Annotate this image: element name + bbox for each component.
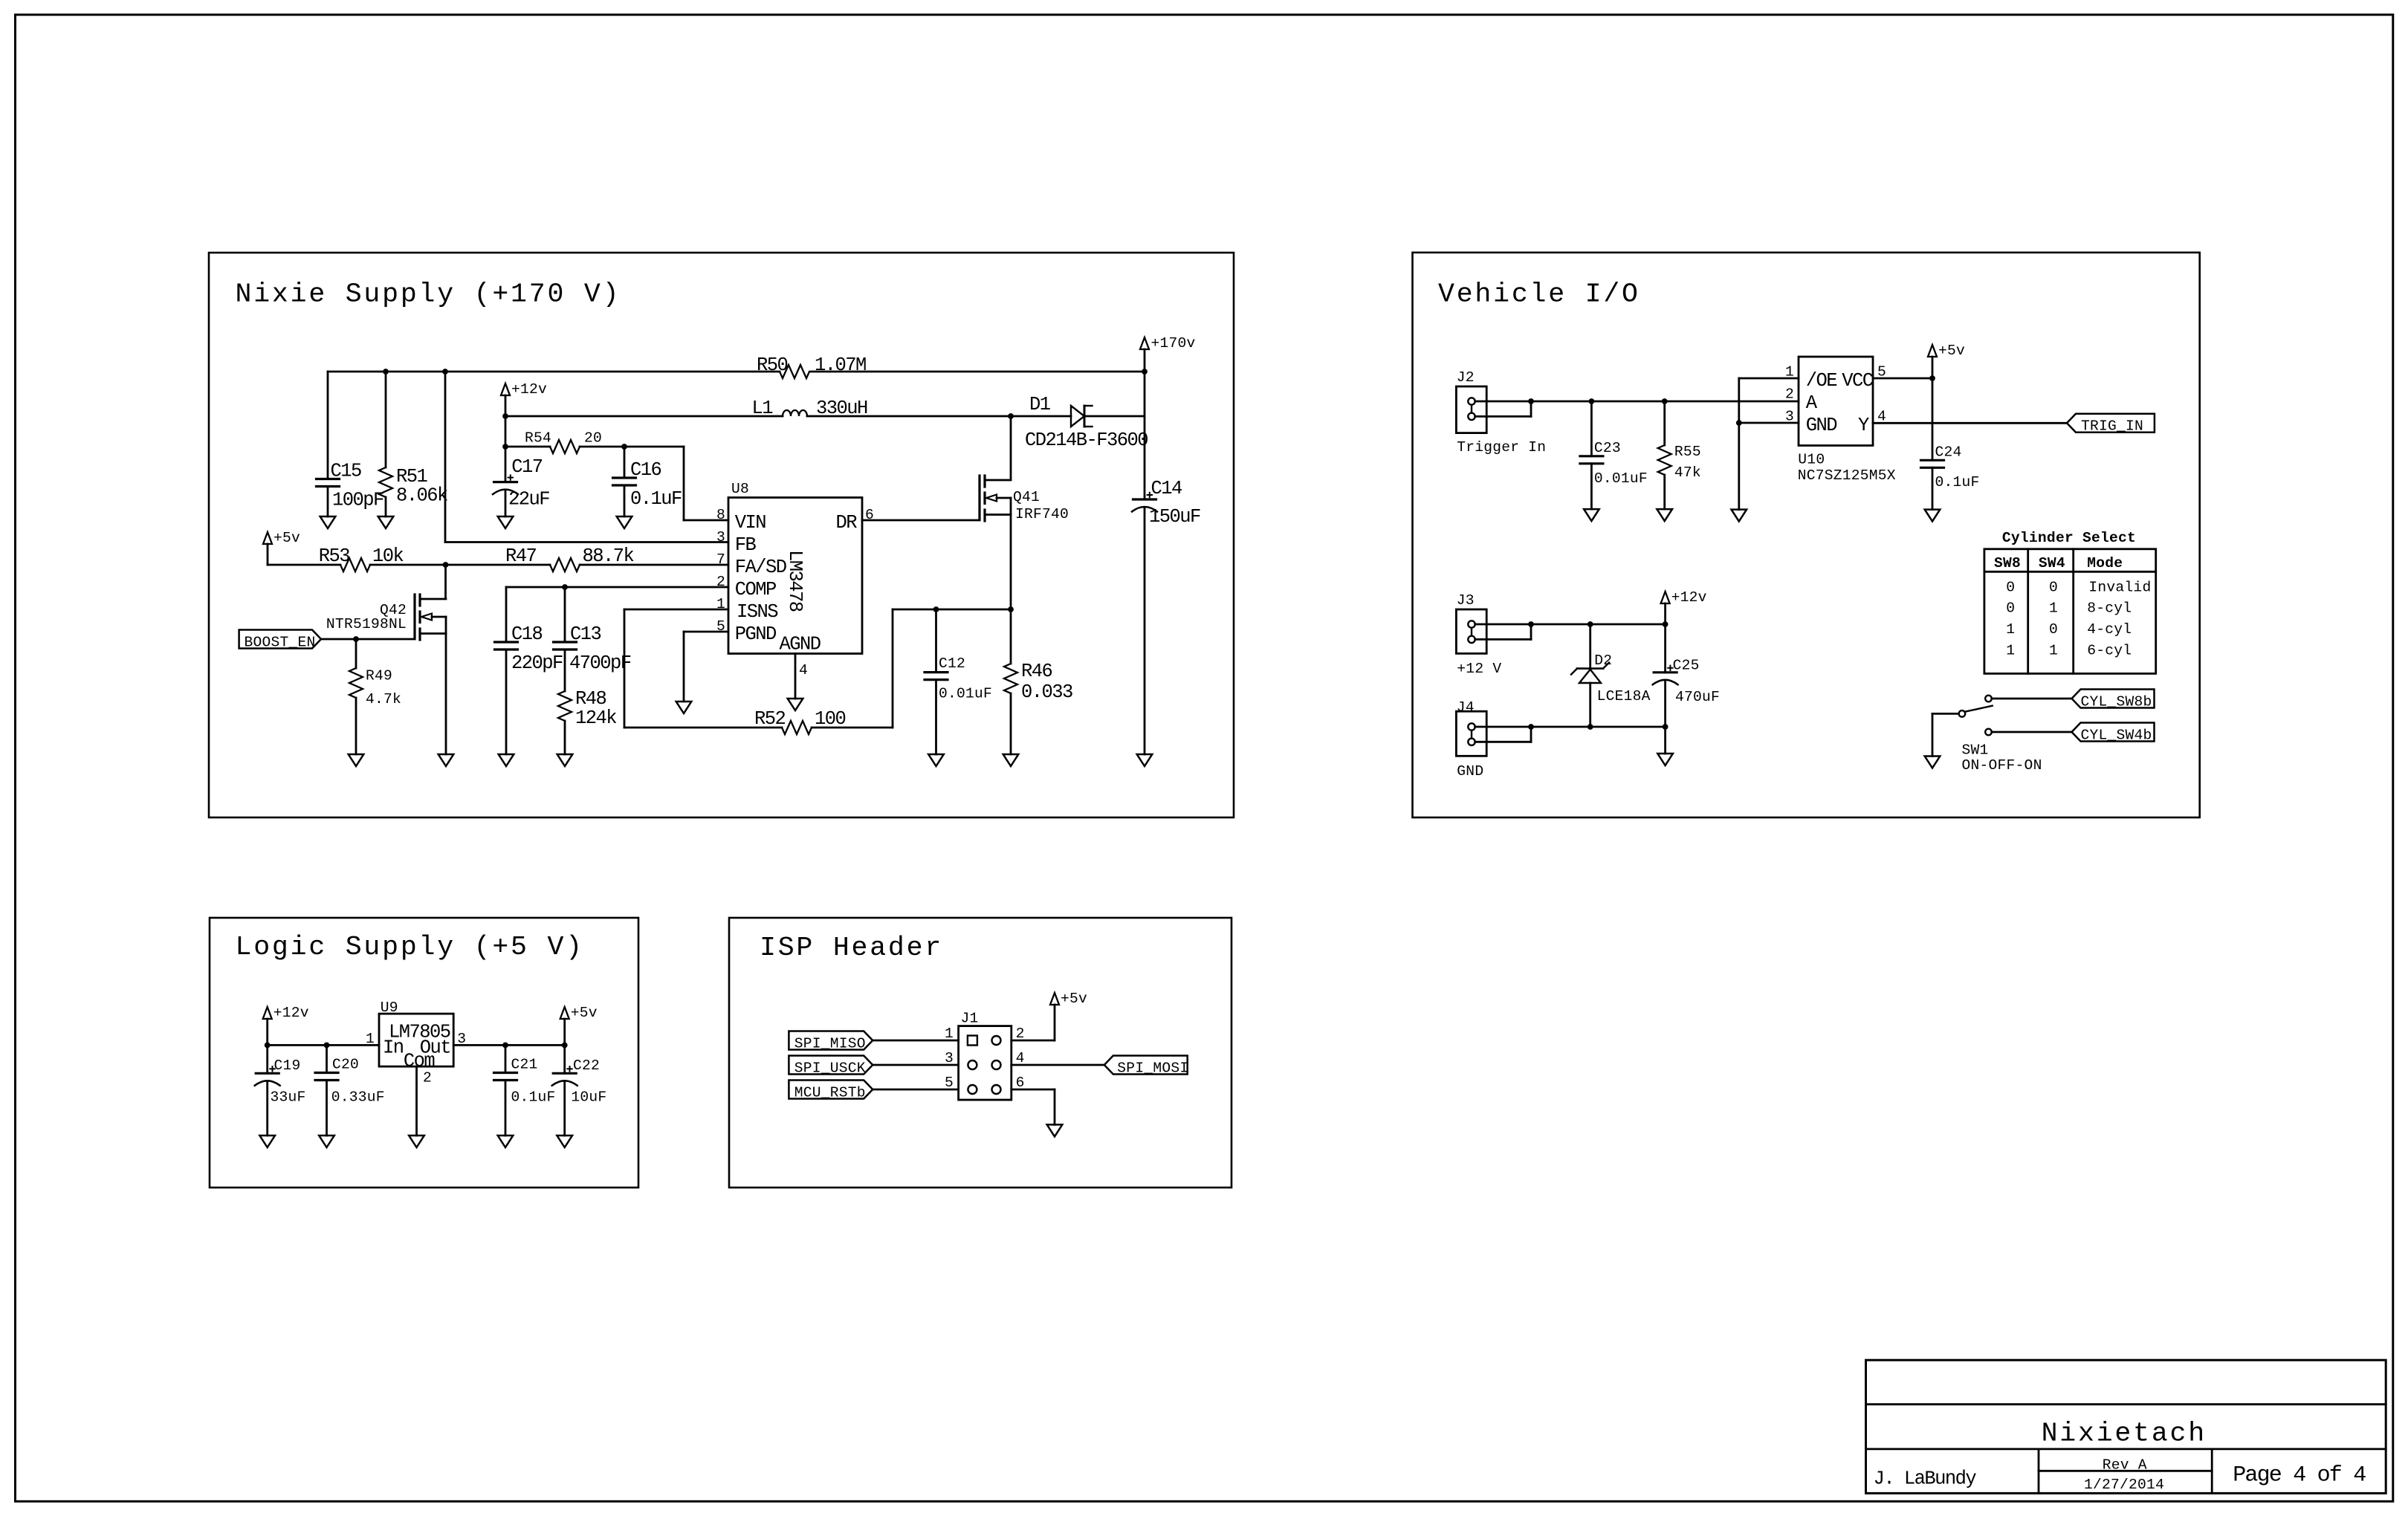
power +5v (ISP) (1050, 991, 1087, 1007)
svg-text:C15: C15 (331, 461, 362, 482)
node junction FB riser tap (442, 369, 448, 375)
capacitor C17 (polarized) (493, 475, 518, 516)
inductor L1 (505, 410, 1011, 416)
wire FA/SD net (268, 564, 728, 566)
svg-text:VIN: VIN (735, 512, 766, 534)
svg-text:R48: R48 (575, 688, 606, 710)
svg-text:NTR5198NL: NTR5198NL (326, 616, 407, 632)
svg-text:VCC: VCC (1842, 370, 1874, 392)
svg-text:8-cyl: 8-cyl (2087, 600, 2132, 617)
pin name FB (735, 534, 757, 556)
svg-text:6-cyl: 6-cyl (2087, 642, 2132, 658)
svg-text:U8: U8 (731, 481, 749, 497)
svg-text:SPI_MOSI: SPI_MOSI (1117, 1060, 1188, 1076)
svg-text:100pF: 100pF (332, 490, 383, 511)
diode D1 (1011, 406, 1145, 427)
wire ISNS net (624, 609, 1011, 728)
label R49 (366, 668, 401, 708)
svg-text:D1: D1 (1029, 394, 1051, 415)
svg-text:D2: D2 (1594, 652, 1612, 669)
pin number 7 (716, 551, 725, 568)
wire pin2 to +5v (1012, 1005, 1055, 1040)
svg-text:1: 1 (2006, 642, 2015, 658)
pin number 3 (716, 529, 725, 545)
label C16 (630, 459, 682, 510)
svg-text:SW1: SW1 (1962, 742, 1989, 759)
svg-text:+5v: +5v (274, 530, 300, 546)
wire throw2 net (1992, 731, 2072, 733)
wire COMP net (506, 587, 728, 642)
pin name FA/SD (735, 557, 786, 578)
wire pin6 to gnd (1012, 1089, 1055, 1124)
svg-text:A: A (1806, 392, 1818, 414)
svg-text:NC7SZ125M5X: NC7SZ125M5X (1798, 467, 1896, 484)
title date 1/27/2014 (2084, 1477, 2164, 1493)
table heading Cylinder Select (2002, 530, 2136, 546)
title block frame (1866, 1360, 2386, 1493)
pin name ISNS (737, 601, 778, 623)
wire PGND net (684, 632, 728, 702)
label C17 (508, 456, 549, 511)
svg-text:3: 3 (457, 1031, 466, 1047)
pin number 6 (865, 507, 874, 523)
svg-text:0.01uF: 0.01uF (1594, 470, 1648, 487)
label C20 (331, 1057, 385, 1106)
pin name VCC (1842, 370, 1874, 392)
power +5v (U10) (1928, 343, 1965, 359)
capacitor C16 (613, 447, 636, 516)
svg-text:J. LaBundy: J. LaBundy (1874, 1468, 1977, 1489)
svg-text:C17: C17 (511, 456, 543, 478)
svg-text:Nixie Supply (+170 V): Nixie Supply (+170 V) (236, 279, 621, 310)
svg-text:+5v: +5v (571, 1005, 598, 1021)
label C18 (511, 623, 563, 674)
svg-text:4.7k: 4.7k (366, 691, 401, 707)
pin number 2 (U10) (1785, 386, 1794, 403)
ground C22 (557, 1136, 572, 1147)
wire +5v stem to C24 (1932, 357, 1934, 460)
capacitor C14 (polarized) (1132, 493, 1157, 754)
table row3 (2006, 621, 2132, 638)
op-amp U9 (LM7805 regulator) (379, 1014, 453, 1066)
label R51 (396, 466, 447, 507)
svg-text:ISNS: ISNS (737, 601, 778, 623)
svg-text:GND: GND (1806, 415, 1837, 436)
label R53 (319, 545, 404, 567)
svg-text:1: 1 (716, 596, 725, 612)
svg-text:C24: C24 (1935, 444, 1962, 460)
ground Q42 source (438, 754, 454, 766)
svg-text:C21: C21 (511, 1057, 538, 1073)
svg-text:C12: C12 (939, 655, 965, 672)
label J3 (1457, 592, 1475, 609)
svg-text:1/27/2014: 1/27/2014 (2084, 1477, 2164, 1493)
pin number 2 (U9) (423, 1070, 432, 1086)
svg-text:C23: C23 (1594, 440, 1621, 456)
capacitor C18 (495, 642, 518, 754)
capacitor C19 (polarized) (255, 1045, 280, 1136)
node junction R49 tap (353, 636, 359, 642)
svg-text:SPI_USCK: SPI_USCK (794, 1060, 866, 1076)
diode D2 (zener LCE18A) (1571, 624, 1609, 727)
wire J4 pin2 link (1475, 727, 1531, 742)
svg-text:Cylinder Select: Cylinder Select (2002, 530, 2136, 546)
svg-text:470uF: 470uF (1675, 689, 1720, 705)
svg-text:0: 0 (2049, 621, 2058, 638)
svg-text:PGND: PGND (735, 623, 776, 645)
switch SW1 throw1 (1985, 696, 1992, 702)
resistor R53 (340, 558, 370, 571)
pin number 2 (J1) (1016, 1026, 1025, 1042)
svg-text:7: 7 (716, 551, 725, 568)
resistor R51 (379, 372, 392, 516)
svg-text:0: 0 (2006, 600, 2015, 617)
section box: Nixie Supply (209, 253, 1234, 817)
wire RSTb (873, 1089, 958, 1091)
label C15 (331, 461, 384, 511)
svg-text:124k: 124k (575, 707, 616, 729)
svg-text:J2: J2 (1457, 369, 1475, 386)
label R54 (525, 430, 602, 447)
capacitor C15 (317, 372, 340, 516)
wire /OE tie (1739, 378, 1799, 423)
capacitor C23 (1580, 401, 1603, 509)
pin number 3 (U10) (1785, 409, 1794, 425)
switch SW1 pole (1959, 706, 1993, 717)
label Q41 (1013, 489, 1069, 522)
svg-text:150uF: 150uF (1149, 506, 1200, 528)
svg-text:10k: 10k (372, 545, 404, 567)
svg-text:33uF: 33uF (271, 1089, 306, 1106)
node junction Q42 drain tap (443, 562, 449, 568)
pin name Y (1858, 415, 1869, 436)
label LM7805 (389, 1022, 450, 1043)
svg-text:TRIG_IN: TRIG_IN (2081, 418, 2143, 435)
wire MISO (873, 1040, 958, 1042)
label J1 (961, 1010, 979, 1026)
pad 5 circle (968, 1085, 977, 1094)
label R46 (1021, 661, 1072, 703)
wire top rail (FB divider net) (328, 371, 1145, 373)
pin number 5 (U10) (1877, 364, 1886, 380)
pin name Com (404, 1050, 435, 1072)
wire Out net (453, 1044, 565, 1046)
ground C14 (+170 rail) (1137, 754, 1153, 766)
section box: Vehicle I/O (1413, 253, 2200, 817)
label U8 (731, 481, 749, 497)
label C24 (1935, 444, 1980, 490)
wire Q42 drain riser (444, 565, 447, 599)
pin number 8 (716, 507, 725, 523)
svg-text:+170v: +170v (1151, 335, 1196, 352)
svg-text:J1: J1 (961, 1010, 979, 1026)
node junction C25 bottom (1663, 724, 1669, 730)
table header SW4 (2039, 555, 2065, 571)
svg-text:1: 1 (2006, 621, 2015, 638)
power +12v (logic) (263, 1005, 309, 1045)
node junction R46 tap (1008, 606, 1014, 612)
svg-text:C14: C14 (1151, 478, 1182, 499)
table box (1984, 549, 2156, 674)
title text Nixietach (2042, 1419, 2207, 1449)
wire J2 pin2 link (1475, 401, 1531, 416)
ground C20 (319, 1136, 334, 1147)
label C23 (1594, 440, 1648, 487)
svg-text:L1: L1 (751, 398, 773, 419)
node junction J2 link (1528, 398, 1534, 404)
svg-text:COMP: COMP (735, 579, 776, 600)
pin name AGND (780, 633, 821, 655)
label LM3478 (rotated) (784, 550, 806, 612)
svg-text:Mode: Mode (2087, 555, 2123, 571)
switch SW1 throw2 (1985, 729, 1992, 736)
svg-text:0: 0 (2006, 579, 2015, 595)
wire pin4 net (1012, 1064, 1104, 1066)
svg-text:C20: C20 (332, 1057, 359, 1073)
svg-text:J3: J3 (1457, 592, 1475, 609)
section box: Logic Supply (210, 918, 638, 1188)
svg-text:4: 4 (799, 662, 808, 678)
svg-text:47k: 47k (1674, 464, 1701, 481)
pin number 1 (U9) (366, 1031, 375, 1047)
svg-text:+12v: +12v (274, 1005, 309, 1021)
svg-text:SPI_MISO: SPI_MISO (794, 1035, 866, 1052)
label D1 (1025, 394, 1148, 451)
svg-text:U9: U9 (381, 1000, 398, 1016)
label C19 (271, 1057, 306, 1106)
svg-text:0.033: 0.033 (1021, 681, 1072, 703)
wire USCK (873, 1064, 958, 1066)
ground PGND (676, 702, 692, 713)
label R52 (754, 708, 846, 730)
svg-text:FA/SD: FA/SD (735, 557, 786, 578)
svg-text:DR: DR (835, 512, 857, 534)
resistor R47 (550, 558, 580, 571)
label C22 (571, 1057, 606, 1106)
capacitor C22 (polarized) (552, 1045, 577, 1136)
svg-text:Logic Supply (+5 V): Logic Supply (+5 V) (236, 932, 584, 962)
pin name COMP (735, 579, 776, 600)
ground R55 (1657, 509, 1672, 521)
ground R46 (1003, 754, 1019, 766)
svg-text:1.07M: 1.07M (815, 354, 866, 376)
svg-text:R47: R47 (505, 545, 537, 567)
svg-text:Com: Com (404, 1050, 435, 1072)
transistor Q41 (980, 416, 1011, 609)
node junction J4 link (1528, 724, 1534, 730)
resistor R52 (782, 721, 812, 734)
svg-text:In: In (383, 1037, 404, 1058)
wire throw1 net (1992, 698, 2072, 700)
svg-text:220pF: 220pF (511, 652, 563, 674)
resistor R55 (1658, 401, 1671, 509)
svg-text:C19: C19 (274, 1057, 301, 1074)
ground C23 (1584, 509, 1599, 521)
pin number 4 (U10) (1877, 409, 1886, 425)
power +12v (501, 381, 547, 416)
svg-text:22uF: 22uF (508, 489, 549, 511)
ground ISP (1047, 1124, 1063, 1136)
table header Mode (2087, 555, 2123, 571)
ground C21 (498, 1136, 514, 1147)
svg-text:2: 2 (1785, 386, 1794, 403)
net flag SPI_MISO (789, 1031, 873, 1052)
net flag SPI_USCK (789, 1056, 873, 1077)
svg-text:J4: J4 (1457, 699, 1475, 716)
wire VCC net (1873, 378, 1932, 380)
label Q42 (326, 602, 407, 632)
pad 3 circle (968, 1060, 977, 1069)
net flag CYL_SW8b (2072, 690, 2155, 710)
svg-text:C22: C22 (573, 1057, 600, 1074)
label GND (J4) (1457, 763, 1483, 780)
power +5v (logic) (560, 1005, 598, 1045)
wire J3 pin1 net (+12v in) (1475, 623, 1666, 626)
node junction J3 link (1528, 621, 1534, 627)
node junction +170 rail (1142, 369, 1148, 375)
pad 1 square (968, 1036, 977, 1046)
title Rev A (2103, 1457, 2147, 1474)
svg-text:3: 3 (716, 529, 725, 545)
pin number 4 (799, 662, 808, 678)
svg-text:R53: R53 (319, 545, 350, 567)
node junction C12 tap (933, 606, 939, 612)
svg-text:100: 100 (815, 708, 846, 730)
op-amp U10 (buffer NC7SZ125) (1799, 357, 1873, 446)
net flag MCU_RSTb (789, 1081, 873, 1101)
power +12v (vehicle) (1661, 589, 1707, 624)
ground C19 (259, 1136, 275, 1147)
node junction C21 (502, 1043, 508, 1049)
svg-text:0.1uF: 0.1uF (511, 1089, 556, 1106)
section title: Logic Supply (+5 V) (236, 932, 584, 962)
svg-text:+12v: +12v (1671, 589, 1707, 606)
svg-text:CD214B-F3600: CD214B-F3600 (1025, 430, 1148, 451)
connector J1 header (959, 1026, 1012, 1100)
svg-text:R50: R50 (757, 354, 788, 376)
svg-text:SW8: SW8 (1994, 555, 2021, 571)
svg-text:R54: R54 (525, 430, 551, 447)
node junction C20 (324, 1043, 330, 1049)
node junction C13 tap (562, 584, 568, 590)
svg-text:+5v: +5v (1061, 991, 1087, 1007)
svg-text:0.1uF: 0.1uF (1935, 474, 1980, 490)
label D2 (1594, 652, 1650, 704)
capacitor C21 (494, 1045, 517, 1136)
resistor R54 (550, 440, 580, 453)
svg-text:+5v: +5v (1938, 343, 1965, 359)
svg-text:Invalid: Invalid (2088, 579, 2151, 595)
svg-text:R46: R46 (1021, 661, 1052, 682)
label R47 (505, 545, 634, 567)
power +5v (FA/SD pullup) (263, 530, 300, 565)
capacitor C24 (1921, 460, 1944, 509)
label U9 (381, 1000, 398, 1016)
svg-text:Trigger In: Trigger In (1457, 439, 1546, 456)
pad 6 circle (992, 1085, 1001, 1094)
power +170v (1140, 335, 1196, 499)
node junction C22 (562, 1043, 568, 1049)
net flag CYL_SW4b (2072, 723, 2155, 744)
label C12 (939, 655, 992, 702)
wire AGND stub (794, 654, 797, 699)
wire R54 net (505, 447, 728, 520)
svg-text:R55: R55 (1674, 444, 1701, 460)
resistor R49 (349, 639, 363, 754)
svg-text:0: 0 (2049, 579, 2058, 595)
wire U10 gnd stem (1738, 423, 1740, 510)
title author J. LaBundy (1874, 1468, 1977, 1489)
node junction C25 top (1663, 621, 1669, 627)
label +12 V (1457, 661, 1501, 677)
svg-text:R52: R52 (754, 708, 786, 730)
node junction D2 top (1587, 621, 1593, 627)
svg-text:2: 2 (423, 1070, 432, 1086)
ground R48 (557, 754, 573, 766)
node junction L1 tap (502, 413, 508, 419)
label SW1 (1962, 742, 2042, 774)
svg-text:0.1uF: 0.1uF (630, 488, 682, 510)
svg-text:/OE: /OE (1806, 370, 1837, 392)
node junction D2 bottom (1587, 724, 1593, 730)
svg-text:10uF: 10uF (571, 1089, 606, 1106)
svg-text:Vehicle I/O: Vehicle I/O (1438, 279, 1640, 310)
net flag BOOST_EN (239, 630, 415, 651)
ground U10 (1732, 510, 1747, 522)
svg-text:20: 20 (584, 430, 602, 447)
svg-text:FB: FB (735, 534, 757, 556)
svg-text:AGND: AGND (780, 633, 821, 655)
wire In net (268, 1044, 379, 1046)
node junction R51 tap (383, 369, 389, 375)
svg-text:CYL_SW4b: CYL_SW4b (2081, 727, 2152, 743)
pin number 1 (716, 596, 725, 612)
table row4 (2006, 642, 2132, 658)
wire Com stub (415, 1066, 418, 1136)
svg-text:330uH: 330uH (816, 398, 867, 419)
label L1 (751, 398, 867, 419)
pin number 5 (716, 618, 725, 635)
pin number 1 (U10) (1785, 364, 1794, 380)
svg-text:1: 1 (2049, 642, 2058, 658)
svg-text:LCE18A: LCE18A (1597, 688, 1651, 704)
ground C17 (498, 516, 514, 528)
svg-text:2: 2 (716, 574, 725, 590)
pin number 3 (U9) (457, 1031, 466, 1047)
pin number 1 (J1) (945, 1026, 954, 1042)
label C14 (1149, 478, 1200, 528)
node junction C23 tap (1589, 398, 1595, 404)
label Trigger In (1457, 439, 1546, 456)
svg-text:4700pF: 4700pF (569, 652, 631, 674)
resistor R48 (558, 691, 572, 754)
svg-text:GND: GND (1457, 763, 1483, 780)
node junction C19 (265, 1043, 271, 1049)
svg-text:U10: U10 (1798, 452, 1825, 468)
svg-text:0.33uF: 0.33uF (331, 1089, 385, 1106)
pin name Out (420, 1037, 450, 1058)
connector J3 (1456, 609, 1486, 653)
node junction /OE-GND (1736, 420, 1742, 426)
svg-text:SW4: SW4 (2039, 555, 2065, 571)
svg-text:ISP Header: ISP Header (760, 933, 943, 963)
label C13 (569, 623, 631, 674)
node junction C16 tap (621, 444, 627, 450)
svg-text:4-cyl: 4-cyl (2087, 621, 2132, 638)
wire Y net (1873, 422, 2067, 424)
pin number 5 (J1) (945, 1075, 954, 1091)
pin number 3 (J1) (945, 1050, 954, 1066)
